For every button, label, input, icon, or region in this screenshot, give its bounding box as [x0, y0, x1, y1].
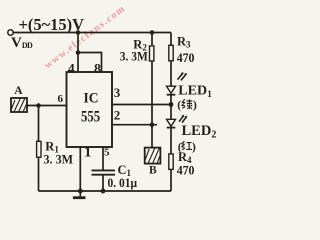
wire pin 1 to ground rail	[79, 147, 81, 191]
svg-text:1: 1	[84, 144, 92, 160]
wire pin3 node to LED2	[170, 105, 172, 120]
resistor R3	[169, 45, 173, 61]
svg-text:A: A	[14, 85, 23, 97]
svg-text:www.elecfans.com: www.elecfans.com	[43, 3, 128, 71]
node junction pin1 / rail	[78, 189, 83, 194]
wire pin 3	[112, 104, 171, 106]
node junction C1 / rail	[101, 189, 106, 194]
svg-text:): )	[192, 142, 196, 154]
svg-text:LED1: LED1	[178, 84, 212, 101]
wire C1 to rail	[102, 175, 104, 191]
wire top rail	[13, 32, 171, 34]
svg-text:3: 3	[114, 85, 121, 100]
node junction pin2 / R2 / B	[150, 122, 155, 127]
svg-text:470: 470	[177, 163, 195, 178]
LED1 diode	[167, 86, 176, 95]
svg-text:470: 470	[177, 50, 195, 65]
node junction rail / R2	[150, 30, 155, 35]
svg-text:0. 01μ: 0. 01μ	[108, 176, 138, 190]
resistor R4	[169, 154, 173, 170]
svg-text:6: 6	[58, 93, 64, 105]
svg-text:IC: IC	[84, 90, 99, 106]
svg-text:VDD: VDD	[11, 35, 33, 51]
node junction A wire / R1	[36, 103, 41, 108]
LED2 diode	[167, 119, 176, 127]
svg-text:4: 4	[68, 62, 75, 77]
wire R1 bottom to rail	[38, 158, 40, 192]
wire LED1 to pin3 node	[170, 95, 172, 105]
wire R2 to pin 2	[151, 61, 153, 125]
svg-text:5: 5	[104, 146, 110, 158]
svg-text:+(5~15)V: +(5~15)V	[19, 15, 85, 34]
wire pin 5 to C1	[102, 147, 104, 170]
wire rail to R3	[170, 33, 172, 46]
wire A to pin 6	[27, 105, 67, 107]
svg-text:3. 3M: 3. 3M	[44, 152, 74, 167]
svg-text:R3: R3	[177, 35, 191, 50]
LED2 arrows	[179, 115, 187, 123]
resistor R2	[150, 46, 154, 61]
node junction pin3 / LED1 / LED2	[169, 102, 174, 107]
svg-text:B: B	[149, 164, 157, 176]
svg-text:8: 8	[94, 62, 101, 77]
wire rail to pin 4	[77, 33, 79, 73]
electrode plate B	[145, 148, 161, 164]
electrode plate A	[11, 98, 27, 112]
wire B drop	[151, 125, 153, 148]
wire R3 to LED1	[170, 61, 172, 86]
svg-text:2: 2	[114, 108, 121, 123]
capacitor C1	[92, 170, 116, 174]
label (red)	[178, 141, 196, 154]
node junction rail to pins 4/8	[76, 30, 81, 35]
svg-text:LED2: LED2	[182, 123, 217, 141]
ground	[73, 191, 86, 198]
svg-text:): )	[193, 100, 197, 112]
terminal VDD	[8, 30, 13, 35]
wire pin 2	[112, 124, 157, 126]
wire rail to R2	[151, 33, 153, 46]
wire bracket to pin 8	[78, 53, 102, 73]
IC U1 555 timer box	[67, 72, 113, 147]
wire R4 to rail	[170, 170, 172, 191]
svg-text:(: (	[177, 100, 181, 112]
node junction pin4/pin8 bracket	[76, 50, 81, 55]
wire bottom rail	[39, 190, 172, 192]
svg-text:555: 555	[81, 109, 100, 126]
wire R1 top	[38, 106, 40, 142]
wire LED2 to R4	[170, 128, 172, 154]
svg-text:3. 3M: 3. 3M	[120, 48, 148, 63]
LED1 arrows	[178, 72, 188, 80]
label (green)	[177, 99, 197, 111]
resistor R1	[37, 141, 41, 157]
